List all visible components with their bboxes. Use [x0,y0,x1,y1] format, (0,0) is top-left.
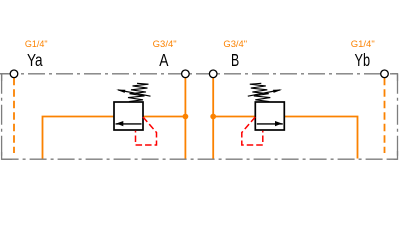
relief valve V1 spring [128,83,149,101]
svg-text:B: B [231,50,239,70]
wire: valve V1 inlet from A line [143,116,185,118]
relief valve V1 body [114,102,143,130]
pilot line V1 (red dashed) [136,117,157,145]
port Yb [381,70,389,78]
relief valve V1 adjustment arrow [116,90,150,97]
relief valve V1 flow arrow [116,121,142,126]
svg-text:G3/4": G3/4" [223,39,247,49]
enclosure corner hooks [0,74,398,159]
wire: valve V2 inlet from B line [213,116,255,118]
port B [209,70,217,78]
svg-text:G3/4": G3/4" [153,39,177,49]
manifold enclosure left border [1,74,3,159]
wire: valve V2 outlet to right drain [284,117,357,159]
junction node on B line [210,114,216,120]
manifold enclosure top border [0,73,398,75]
pilot line V2 (red dashed) [242,117,263,145]
wire: Ya drain line (dashed) [13,78,15,153]
manifold enclosure right border [397,74,399,159]
wire: valve V1 outlet to left drain [43,117,115,159]
port Ya [10,70,18,78]
svg-text:G1/4": G1/4" [351,39,375,49]
wire: port B vertical line [212,78,214,159]
svg-text:Ya: Ya [27,50,43,70]
svg-text:Yb: Yb [355,50,371,70]
wire: port A vertical line [184,78,186,159]
junction node on A line [183,114,189,120]
port A [182,70,190,78]
svg-text:A: A [159,50,168,70]
relief valve V2 body [255,102,284,130]
wire: Yb drain line (dashed) [384,78,386,153]
manifold enclosure bottom border [2,158,398,160]
relief valve V2 adjustment arrow [248,90,282,97]
relief valve V2 spring [250,83,270,101]
svg-text:G1/4": G1/4" [25,39,48,49]
relief valve V2 flow arrow [257,121,283,126]
